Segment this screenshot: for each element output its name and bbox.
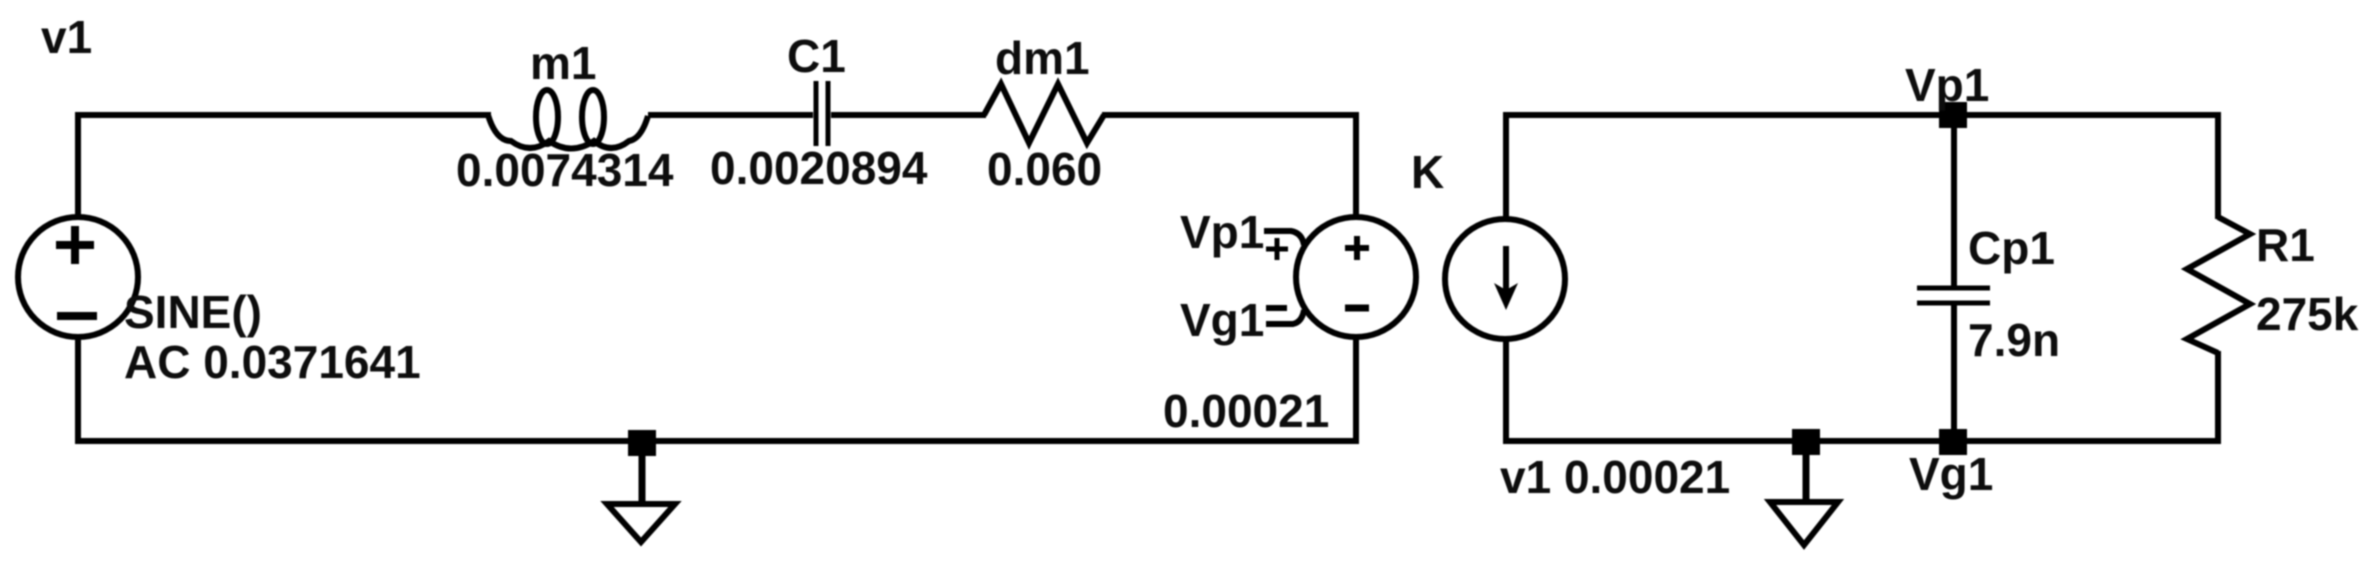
node junction Vg1	[1939, 429, 1967, 455]
wire: middle branch upper	[1951, 115, 1957, 289]
wire: bottom rail right circuit	[1503, 438, 2221, 444]
ground (left)	[607, 454, 675, 542]
svg-text:275k: 275k	[2256, 288, 2359, 340]
wire: bottom rail	[75, 438, 1356, 444]
svg-text:C1: C1	[787, 30, 846, 82]
minus mark (control)	[1266, 305, 1287, 311]
svg-text:R1: R1	[2256, 219, 2315, 271]
inductor m1	[488, 90, 648, 149]
svg-text:K: K	[1411, 146, 1444, 198]
wire: left vertical upper	[75, 112, 81, 218]
capacitor C1	[816, 81, 828, 146]
node junction (left ground node)	[628, 430, 656, 456]
svg-text:Vg1: Vg1	[1180, 294, 1264, 346]
svg-text:0.0074314: 0.0074314	[456, 144, 674, 196]
capacitor Cp1	[1917, 288, 1990, 303]
arrowhead of current source	[1494, 283, 1518, 310]
ground (right)	[1770, 453, 1838, 545]
wire: VCVS control pin + (hook)	[1264, 231, 1304, 245]
wire: VCVS top lead	[1353, 112, 1359, 218]
svg-text:Vp1: Vp1	[1180, 206, 1264, 258]
svg-text:Vp1: Vp1	[1905, 59, 1989, 111]
wire: left vertical upper (right circuit)	[1503, 112, 1509, 220]
svg-text:SINE(): SINE()	[124, 286, 262, 338]
resistor dm1	[984, 84, 1104, 143]
wire: top rail right segment	[1102, 112, 1359, 118]
svg-text:dm1: dm1	[995, 32, 1090, 84]
current source K	[1445, 219, 1565, 339]
wire: VCVS bottom lead	[1353, 336, 1359, 444]
wire: top rail between C1 and dm1	[831, 112, 986, 118]
svg-text:Vg1: Vg1	[1909, 448, 1993, 500]
resistor R1	[2187, 217, 2250, 353]
svg-text:v1 0.00021: v1 0.00021	[1500, 451, 1730, 503]
wire: top rail right circuit	[1503, 112, 2221, 118]
wire: VCVS control pin - (hook)	[1266, 310, 1304, 324]
svg-text:v1: v1	[41, 11, 92, 63]
wire: top rail left segment	[75, 112, 491, 118]
wire: right vertical upper	[2215, 112, 2221, 219]
wire: right vertical lower	[2215, 351, 2221, 444]
node junction Vp1	[1939, 102, 1967, 128]
wire: left vertical lower (right circuit)	[1503, 338, 1509, 444]
wire: middle branch lower	[1951, 303, 1957, 441]
svg-text:0.060: 0.060	[987, 143, 1102, 195]
svg-text:0.0020894: 0.0020894	[710, 142, 928, 194]
svg-text:0.00021: 0.00021	[1163, 385, 1329, 437]
svg-text:Cp1: Cp1	[1968, 222, 2055, 274]
plus mark (control)	[1266, 238, 1288, 260]
dependent source E1 (VCVS)	[1296, 217, 1416, 337]
node junction (right ground node)	[1792, 429, 1820, 455]
svg-text:AC 0.0371641: AC 0.0371641	[124, 336, 421, 388]
svg-text:m1: m1	[530, 37, 596, 89]
voltage source v1	[18, 217, 138, 337]
svg-text:7.9n: 7.9n	[1968, 314, 2060, 366]
wire: left vertical lower	[75, 337, 81, 444]
wire: top rail between m1 and C1	[648, 112, 813, 118]
